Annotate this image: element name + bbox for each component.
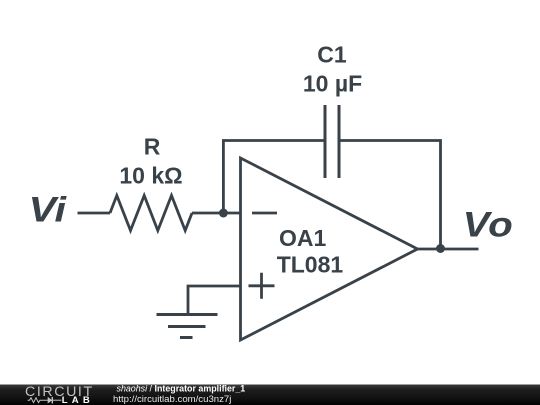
footer black bar (0, 385, 540, 405)
node junction dot at inverting input (219, 209, 228, 218)
wire non-inverting input to ground (188, 286, 241, 315)
svg-text:http://circuitlab.com/cu3nz7j: http://circuitlab.com/cu3nz7j (113, 394, 231, 405)
svg-text:C1: C1 (317, 42, 347, 68)
wire capacitor to right corner and down to output (339, 141, 441, 249)
wire resistor to inverting input (192, 212, 241, 215)
svg-text:TL081: TL081 (277, 252, 344, 278)
resistor R (110, 196, 192, 231)
wire op-amp output (418, 248, 479, 251)
op-amp inverting pin minus symbol (252, 212, 277, 215)
op-amp non-inverting pin plus symbol (249, 273, 275, 299)
ground symbol (157, 315, 218, 338)
svg-text:shaohsi / Integrator amplifier: shaohsi / Integrator amplifier_1 (117, 384, 246, 394)
node junction dot at output (436, 244, 445, 253)
svg-text:OA1: OA1 (279, 225, 327, 251)
wire node to feedback top corner (223, 141, 325, 214)
svg-text:R: R (144, 134, 161, 160)
svg-text:10 kΩ: 10 kΩ (119, 163, 182, 189)
CircuitLab logo resistor squiggle and diode (28, 397, 62, 404)
svg-text:Vo: Vo (463, 204, 513, 244)
op-amp OA1 triangle (241, 158, 418, 340)
svg-text:LAB: LAB (62, 395, 94, 405)
CircuitLab logo diode triangle (48, 397, 53, 404)
svg-text:10 µF: 10 µF (303, 71, 362, 97)
svg-text:Vi: Vi (29, 190, 68, 230)
capacitor C1 (325, 105, 339, 178)
wire Vi to resistor (78, 212, 111, 215)
